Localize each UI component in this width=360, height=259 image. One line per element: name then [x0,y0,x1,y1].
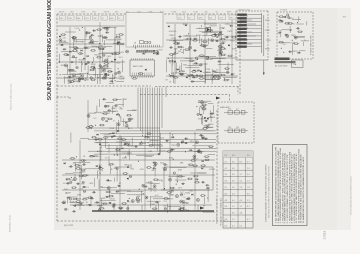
node N229 [290,30,291,31]
table left caption column [216,197,223,226]
capacitor C8 [105,32,109,34]
svg-text:6.5: 6.5 [225,155,228,157]
resistor R238 [278,16,284,18]
capacitor C175 [213,33,217,35]
resistor R425 [201,108,207,110]
diode D139 [185,24,187,26]
capacitor C306 [117,185,121,187]
resistor R21 [104,74,110,76]
svg-text:1.3: 1.3 [247,181,250,183]
resistor R218 [107,118,113,120]
resistor R403 [148,145,154,147]
vertical wire A4 [114,27,116,78]
svg-text:PLAY: PLAY [193,10,198,13]
svg-text:MUTE: MUTE [104,11,110,13]
node N51 [118,68,119,69]
node N144 [208,57,209,58]
diode D67 [69,51,71,53]
resistor R120 [231,36,237,38]
node N157 [181,49,182,50]
capacitor C193 [102,98,106,100]
resistor R55 [61,34,67,36]
electrolytic capacitor C344 [164,163,166,165]
connector pin wire 3 [247,21,262,23]
node N185 [154,50,155,51]
transistor Q128 [206,57,209,60]
EQ input column wiring [196,101,214,131]
resistor R87 [104,63,110,65]
node N325 [207,198,208,199]
resistor R351 [187,178,193,180]
svg-text:2.4: 2.4 [225,174,228,176]
capacitor C341 [196,151,200,153]
resistor R249 [106,191,112,193]
svg-text:0.7: 0.7 [247,219,250,221]
resistor R435 [101,77,107,79]
pre-driver bottom row extra [69,69,219,83]
transistor Q466 [180,200,183,203]
node N379 [148,142,149,143]
resistor R112 [200,45,206,47]
resistor R92 [86,32,92,34]
svg-text:AGC: AGC [65,208,70,211]
capacitor C17 [98,48,102,50]
wash soft right edge [337,8,351,230]
svg-text:R226: R226 [70,201,76,203]
capacitor C352 [152,167,156,169]
transistor Q349 [164,168,167,171]
resistor R5 [90,50,96,52]
resistor R401 [97,138,103,140]
electrolytic capacitor C389 [125,142,127,144]
capacitor C227 [278,32,282,34]
resistor R140 [218,46,224,48]
transistor Q397 [177,143,180,146]
resistor R239 [284,23,290,25]
diode D414 [97,134,99,136]
transistor Q77 [102,69,105,72]
svg-text:POWER SUPPLY UNIT: POWER SUPPLY UNIT [311,34,313,55]
svg-text:5.8: 5.8 [225,219,228,221]
resistor R164 [177,46,183,48]
resistor R355 [188,164,194,166]
electrolytic capacitor C453 [69,198,71,200]
connector pin pad 1 [237,14,247,16]
diode D141 [193,70,195,72]
resistor R110 [224,68,230,70]
resistor R170 [169,54,175,56]
capacitor C392 [134,146,138,148]
node N371 [187,203,188,204]
svg-text:TAPE: TAPE [178,186,184,189]
output stage components right [137,149,210,211]
svg-text:R343: R343 [100,198,106,200]
node N332 [148,188,149,189]
svg-text:8.1: 8.1 [247,206,250,208]
svg-text:9.6: 9.6 [225,181,228,183]
svg-text:4.7: 4.7 [232,225,235,227]
vertical wire D4 [144,135,146,210]
resistor R65 [118,34,124,36]
svg-text:8.2: 8.2 [225,225,228,227]
node N130 [224,78,225,79]
diode D264 [127,178,129,180]
svg-text:BAL: BAL [81,183,85,186]
IC U1 bottom pin ticks [134,45,160,47]
resistor R373 [190,160,196,162]
capacitor C69 [68,76,72,78]
node N48 [104,61,105,62]
node N179 [177,53,178,54]
electrolytic capacitor C123 [226,71,228,73]
resistor R136 [199,55,205,57]
electrolytic capacitor C251 [127,207,129,209]
node N463 [129,198,130,199]
resistor R364 [169,187,175,189]
svg-text:MEASURED WITH VTVM 20K/V: MEASURED WITH VTVM 20K/V [216,197,219,224]
capacitor C305 [108,202,112,204]
node N216 [91,128,92,129]
shield boundary dashed path [140,87,238,103]
electrolytic capacitor C277 [83,190,85,192]
middle small components [126,48,164,55]
transistor Q329 [193,155,196,158]
capacitor C263 [115,191,119,193]
resistor R7 [96,56,102,58]
connector pin wire 8 [247,38,262,40]
resistor R132 [191,71,197,73]
connector pin pad 10 [237,46,247,48]
diode D153 [200,70,202,72]
svg-text:220: 220 [236,127,239,129]
resistor R301 [109,163,115,165]
resistor R354 [153,179,159,181]
svg-text:OSC: OSC [178,18,183,20]
node N63 [60,74,61,75]
node N93 [92,62,93,63]
bus wire D2 [62,174,215,176]
node N245 [83,160,84,161]
resistor R228 [293,43,299,45]
resistor R427 [202,128,208,130]
svg-text:BIAS: BIAS [209,126,214,129]
resistor R162 [186,38,192,40]
diode D265 [127,166,129,168]
svg-text:62K: 62K [137,196,141,198]
resistor R145 [169,75,175,77]
resistor R327 [166,192,172,194]
resistor R390 [117,138,123,140]
resistor R215 [103,113,109,115]
transistor Q365 [176,195,179,198]
diode D413 [181,142,183,144]
diode D56 [114,59,116,61]
resistor R25 [90,66,96,68]
node N38 [82,41,83,42]
svg-text:4.8: 4.8 [240,213,243,215]
voltage chart cell entries [225,155,250,227]
EQ board lower component row [224,127,248,133]
vertical wire D1 [79,140,81,210]
electrolytic capacitor C321 [154,164,156,166]
diode D50 [87,55,89,57]
IC U1 outline (empty block) [126,13,163,48]
transistor Q340 [196,198,199,201]
svg-text:5.7: 5.7 [225,161,228,163]
resistor R45 [103,27,109,29]
resistor R384 [144,136,150,138]
capacitor C70 [77,80,81,82]
capacitor C161 [215,40,219,42]
bus wire upper left [58,25,125,27]
capacitor C28 [117,41,121,43]
bus wire right C [166,57,238,59]
resistor R83 [115,53,121,55]
svg-text:R879: R879 [107,181,113,183]
capacitor C385 [94,139,98,141]
transistor Q346 [153,185,156,188]
svg-text:4.7: 4.7 [236,109,239,111]
resistor R377 [103,137,109,139]
capacitor C33 [90,34,94,36]
svg-text:BIAS: BIAS [230,40,235,43]
capacitor C289 [98,166,102,168]
svg-text:08: 08 [134,43,136,45]
transistor Q438 [104,75,107,78]
function board outline PCB-2 [277,12,313,59]
resistor R242 [78,175,84,177]
bus wire low left [58,77,125,79]
capacitor C447 [104,73,108,75]
node N430 [196,106,197,107]
function board wiring [279,17,309,56]
diode D259 [64,162,66,164]
node N88 [99,43,100,44]
capacitor C201 [116,113,120,115]
transistor Q459 [131,200,134,203]
capacitor C290 [69,166,73,168]
electrolytic capacitor C10 [105,73,107,75]
capacitor C114 [218,61,222,63]
diode D150 [174,61,176,63]
node N199 [128,128,129,129]
capacitor C416 [171,136,175,138]
node N309 [173,159,174,160]
resistor R23 [73,47,79,49]
resistor R211 [126,114,132,116]
svg-text:39K: 39K [180,163,184,165]
capacitor C156 [221,42,225,44]
capacitor C273 [88,204,92,206]
node N369 [138,161,139,162]
node N171 [183,71,184,72]
node N318 [188,210,189,211]
electrolytic capacitor C308 [171,190,173,192]
electrolytic capacitor C464 [188,197,190,199]
capacitor C461 [73,205,77,207]
transistor Q406 [127,143,130,146]
capacitor C255 [90,197,94,199]
capacitor C109 [169,47,173,49]
ground bus taps [100,205,198,211]
svg-text:2.5: 2.5 [247,168,250,170]
svg-text:R758: R758 [65,77,71,79]
voltage chart table frame [223,151,253,228]
svg-text:C473: C473 [227,31,233,33]
electrolytic capacitor C35 [72,56,74,58]
node N207 [119,115,120,116]
terminal boxes row right [177,15,236,20]
transistor Q159 [214,75,217,78]
svg-text:BAL: BAL [69,17,72,20]
bus wire mid left B [58,61,125,63]
node N91 [116,34,117,35]
svg-text:6.6: 6.6 [247,193,250,195]
svg-text:TONE: TONE [78,189,84,191]
capacitor C380 [201,137,205,139]
node N225 [283,52,284,53]
transistor Q73 [105,59,108,62]
svg-text:R616: R616 [180,71,186,73]
signal arrow at shield [216,97,221,100]
voltage chart header shading [223,151,253,157]
transistor Q326 [154,162,157,165]
svg-text:SEE PAGE 4 FOR PARTS LIST AND: SEE PAGE 4 FOR PARTS LIST AND PC BOARD P… [268,165,271,218]
resistor R291 [74,165,80,167]
resistor R181 [192,40,198,42]
node N78 [85,80,86,81]
resistor R125 [202,41,208,43]
transistor Q122 [218,76,221,79]
ripple filter sub-board corner [57,97,70,99]
svg-text:SW: SW [165,79,168,81]
diode D208 [125,122,127,124]
capacitor C177 [190,74,194,76]
node N13 [119,71,120,72]
svg-text:4.8: 4.8 [225,200,228,202]
svg-text:REC: REC [112,76,117,78]
transistor Q424 [201,101,204,104]
transistor Q85 [90,39,93,42]
resistor R298 [121,203,127,205]
node N345 [176,184,177,185]
svg-text:5.3: 5.3 [247,200,250,202]
connector pin pad 4 [237,24,247,26]
electrolytic capacitor C204 [126,124,128,126]
svg-text:BAL: BAL [63,36,67,39]
node N274 [111,169,112,170]
IC U2 with pin rows [130,58,155,78]
node N250 [86,202,87,203]
diode D421 [204,117,206,119]
node N18 [80,53,81,54]
resistor R367 [200,195,206,197]
node N196 [116,114,117,115]
node N37 [90,36,91,37]
resistor R449 [138,73,144,75]
svg-text:OSC: OSC [93,118,98,120]
svg-text:8.6: 8.6 [225,193,228,195]
resistor R360 [192,165,198,167]
node N137 [188,33,189,34]
node N151 [197,59,198,60]
svg-text:1.7: 1.7 [240,206,243,208]
diode D441 [145,69,147,71]
resistor R36 [68,69,74,71]
node N206 [95,125,96,126]
transistor Q292 [63,201,66,204]
svg-text:01 1008: 01 1008 [207,78,216,80]
capacitor C119 [230,73,234,75]
connector pin pad 9 [237,42,247,44]
transistor Q231 [286,35,289,38]
resistor R302 [71,187,77,189]
diode D57 [70,81,72,83]
node N79 [88,62,89,63]
connector pin pad 2 [237,17,247,19]
capacitor C101 [194,62,198,64]
transistor Q348 [182,201,185,204]
svg-text:WIRING SIDE: WIRING SIDE [238,9,251,11]
svg-text:9.1: 9.1 [232,219,235,221]
svg-text:C731: C731 [158,50,164,52]
electrolytic capacitor C223 [288,17,290,19]
transistor Q203 [87,114,90,117]
node N282 [117,155,118,156]
vertical wire A8 [219,24,221,76]
resistor R54 [63,54,69,56]
transistor Q44 [59,39,62,42]
resistor R152 [227,55,233,57]
svg-text:4.0: 4.0 [240,200,243,202]
node N418 [141,141,142,142]
resistor R269 [81,160,87,162]
diode D103 [228,44,230,46]
resistor R429 [200,106,206,108]
node N271 [97,151,98,152]
transistor Q124 [211,39,214,42]
svg-text:R299: R299 [98,36,104,38]
resistor R272 [123,173,129,175]
node N26 [59,62,60,63]
diode D440 [186,76,188,78]
diode D94 [59,36,61,38]
ripple filter components [86,98,138,132]
diode D415 [112,132,114,134]
connector pin pad 5 [237,28,247,30]
svg-text:archive.org/schematics/sound-4: archive.org/schematics/sound-456-amp.htm [350,176,353,215]
node N368 [164,188,165,189]
svg-text:R685: R685 [112,108,118,110]
resistor R398 [208,146,214,148]
node N32 [114,77,115,78]
svg-text:C559: C559 [119,78,125,80]
node N232 [292,40,293,41]
transistor Q102 [210,29,213,32]
node N230 [297,22,298,23]
resistor R313 [201,165,207,167]
EQ input column [196,101,215,130]
output bottom band extra [69,193,204,210]
resistor R172 [189,60,195,62]
diode D338 [202,160,204,162]
power ground bus (dark) [92,210,214,212]
driver stage components [168,24,237,83]
electrolytic capacitor C408 [182,141,184,143]
transistor Q81 [118,71,121,74]
node N370 [177,181,178,182]
resistor R445 [69,69,75,71]
